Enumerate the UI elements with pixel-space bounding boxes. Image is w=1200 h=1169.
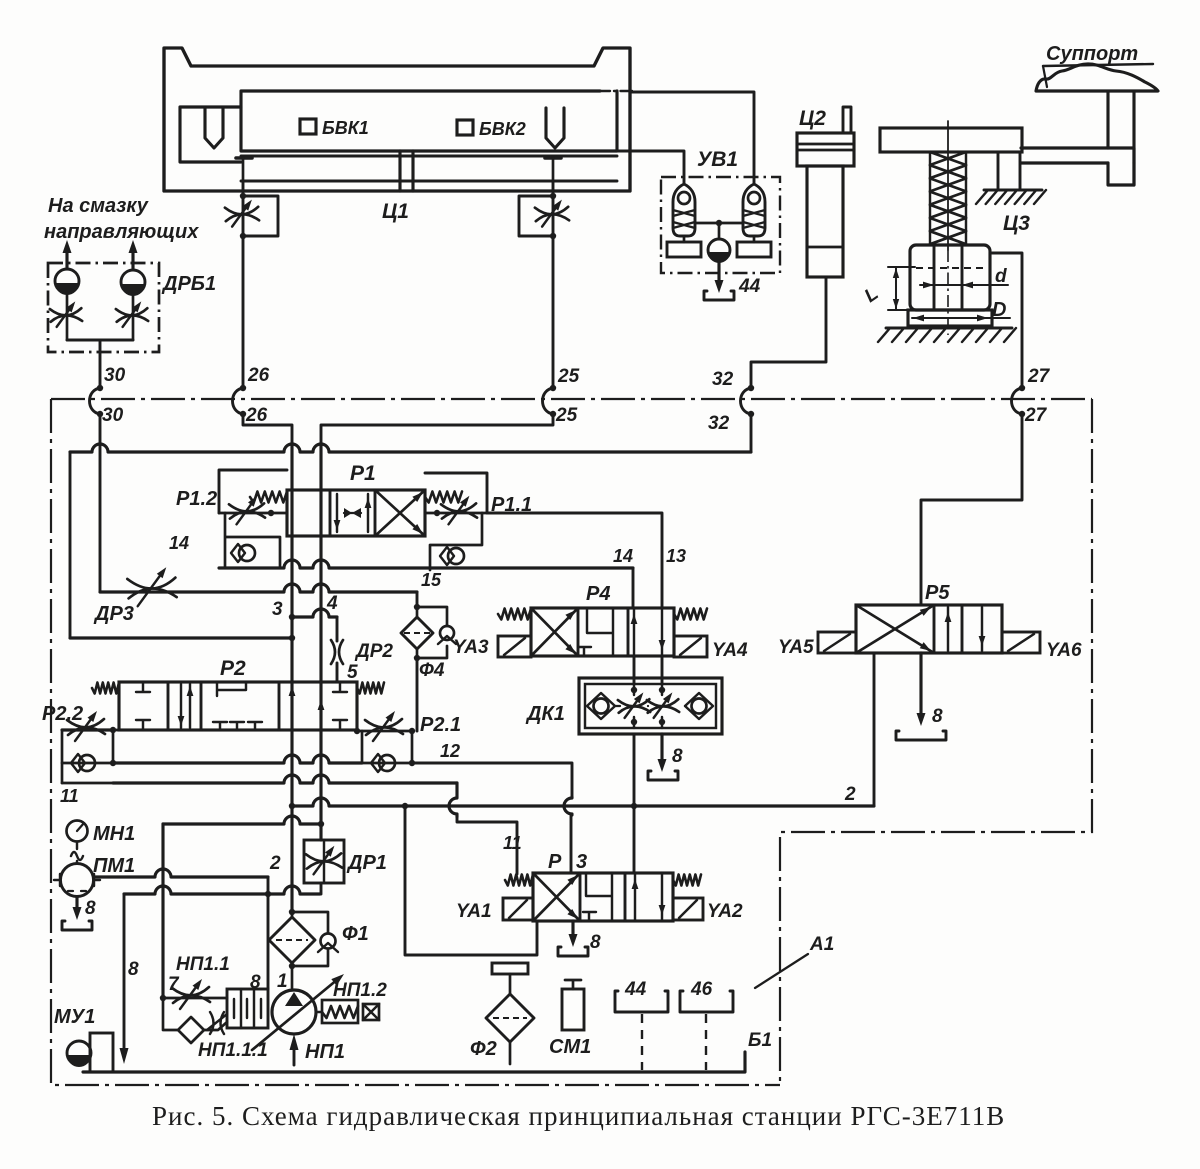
bypass box right port xyxy=(519,196,553,236)
svg-text:11: 11 xyxy=(60,786,79,806)
svg-text:НП1: НП1 xyxy=(305,1041,345,1063)
throttle under left lubricator xyxy=(66,293,69,340)
svg-text:32: 32 xyxy=(712,369,734,390)
P2.2 check valve xyxy=(62,762,113,765)
wire 27 to P5 xyxy=(921,414,1022,605)
P1 right spring xyxy=(425,492,462,503)
tank symbol 44 xyxy=(704,291,734,300)
throttle on left port line xyxy=(242,196,245,236)
P5 left port to line 2 xyxy=(873,653,876,806)
throttle ДР3 xyxy=(129,588,177,598)
P2.1 check valve xyxy=(362,762,412,765)
port terminal tick left xyxy=(236,156,252,160)
wire 25 down to frame node xyxy=(552,236,555,388)
support blob shape xyxy=(1036,64,1158,91)
svg-text:Суппорт: Суппорт xyxy=(1046,43,1138,65)
svg-text:Р2: Р2 xyxy=(220,657,246,680)
svg-text:НП1.1.1: НП1.1.1 xyxy=(198,1040,268,1061)
support post xyxy=(1108,92,1134,163)
svg-text:ПМ1: ПМ1 xyxy=(93,855,135,877)
probe plunger left xyxy=(205,108,223,148)
solenoid YA4 xyxy=(674,636,707,657)
P2 section2 arrows xyxy=(181,684,190,728)
dimension L xyxy=(888,267,915,310)
svg-text:А1: А1 xyxy=(809,934,834,955)
sensor square BVK1 xyxy=(300,119,316,134)
svg-text:YA4: YA4 xyxy=(712,640,748,661)
line 4 between P2 and ДР1 xyxy=(319,682,322,840)
Ц2 rod wire to node 32 xyxy=(751,277,826,388)
dimension D xyxy=(912,317,1010,319)
svg-text:Б1: Б1 xyxy=(748,1030,772,1051)
svg-text:44: 44 xyxy=(624,979,647,1000)
cylinder block of Ц3 xyxy=(910,245,990,310)
solenoid YA2 xyxy=(673,898,703,920)
bed inner pocket wall xyxy=(180,107,241,162)
wire from left port down xyxy=(242,181,245,196)
wire 25 to line 4 xyxy=(321,414,553,443)
dash-dot box УВ1 xyxy=(661,177,780,273)
throttle ДР2 diamond xyxy=(416,607,419,618)
svg-text:11: 11 xyxy=(503,833,522,853)
P4 right spring xyxy=(674,609,707,620)
frame of station A1 (dash-dot) xyxy=(51,399,1092,1085)
svg-text:8: 8 xyxy=(672,746,683,767)
wire B from bed to УВ1 left element xyxy=(617,151,684,184)
svg-text:8: 8 xyxy=(590,932,601,953)
subvalve P2.2 throttle xyxy=(113,729,119,732)
spring of Ц3 xyxy=(930,152,966,245)
node 32 frame crossing xyxy=(748,385,754,391)
pump variable arrow xyxy=(252,979,338,1050)
ДК1 left check valve xyxy=(594,699,609,714)
support beam xyxy=(1021,148,1134,185)
bus under P1 xyxy=(219,560,633,568)
svg-text:YA2: YA2 xyxy=(707,901,743,922)
svg-text:32: 32 xyxy=(708,413,730,434)
left riser of bus 32 xyxy=(69,452,72,638)
УВ1 right element box xyxy=(753,236,756,242)
joining wire inside ДРБ1 xyxy=(67,340,133,388)
svg-text:26: 26 xyxy=(247,365,270,386)
solenoid YA6 xyxy=(1002,632,1040,653)
P3 right spring xyxy=(673,875,701,886)
svg-text:3: 3 xyxy=(576,851,587,873)
line 3 vertical middle xyxy=(290,490,293,682)
line 3 label 1 region - filter Ф1 xyxy=(289,909,295,915)
node 25 frame crossing xyxy=(550,385,556,391)
servo throttle НП1.1 xyxy=(163,997,227,1000)
line 2 bus horizontal xyxy=(292,798,874,806)
pump servo block xyxy=(227,989,268,1028)
svg-text:МН1: МН1 xyxy=(93,823,135,845)
svg-text:L: L xyxy=(861,283,883,307)
drain arrow to tank 44 xyxy=(717,261,720,284)
dash-dot box ДРБ1 xyxy=(48,263,159,352)
arrow up to lubrication left xyxy=(65,249,68,269)
svg-text:46: 46 xyxy=(690,979,713,1000)
wire from Ф4 down to P2.1 xyxy=(416,658,419,731)
P5 middle arrow xyxy=(947,607,949,651)
svg-text:направляющих: направляющих xyxy=(44,221,199,243)
svg-text:26: 26 xyxy=(245,405,268,426)
arrow up to lubrication right xyxy=(131,249,134,269)
subvalve P1.2 box xyxy=(219,470,287,513)
wire from right port down xyxy=(552,181,555,196)
P3 right arrows xyxy=(635,873,662,921)
hatched ground upper xyxy=(984,189,1042,192)
svg-text:Ц1: Ц1 xyxy=(382,200,409,223)
svg-text:ДР3: ДР3 xyxy=(93,603,134,625)
throttle on right port line xyxy=(552,196,555,236)
bus 32 horizontal xyxy=(70,444,751,452)
lubricator right (circle half filled) xyxy=(121,270,145,294)
svg-text:44: 44 xyxy=(738,276,761,297)
lubricator left (circle half filled) xyxy=(55,269,79,293)
svg-text:30: 30 xyxy=(102,405,124,426)
subvalve P2.1 xyxy=(356,730,359,731)
pump suction arrow xyxy=(293,1047,296,1065)
bypass box left port xyxy=(243,196,278,236)
pump limiter box xyxy=(363,1004,379,1020)
block ДК1 outer xyxy=(579,678,722,734)
wire 26 to line 3 xyxy=(243,414,292,443)
wire to pump servo xyxy=(267,894,270,989)
port terminal tick right xyxy=(545,156,561,160)
svg-text:1: 1 xyxy=(277,971,288,992)
dash-dot wall segment at bed right xyxy=(598,90,632,92)
svg-text:ДР2: ДР2 xyxy=(354,641,393,662)
svg-text:2: 2 xyxy=(269,853,281,874)
P2.2 check valve box xyxy=(62,730,113,783)
P3 left spring xyxy=(505,875,533,886)
line 12 bus xyxy=(113,755,362,763)
svg-text:Р5: Р5 xyxy=(925,582,950,604)
cylinder chamber lines xyxy=(241,155,617,158)
svg-text:НП1.2: НП1.2 xyxy=(333,980,387,1001)
P3 drain box xyxy=(405,806,537,955)
svg-text:Р4: Р4 xyxy=(586,583,610,605)
svg-text:СМ1: СМ1 xyxy=(549,1036,591,1058)
P5 left X xyxy=(856,605,934,653)
P1.1 check valve xyxy=(448,548,464,564)
svg-text:YA5: YA5 xyxy=(778,637,814,658)
svg-text:27: 27 xyxy=(1024,405,1048,426)
svg-text:БВК2: БВК2 xyxy=(479,119,526,139)
dimension d xyxy=(920,284,1008,286)
УВ1 right pilot element xyxy=(743,184,765,236)
line 14 riser to P4 xyxy=(632,568,635,608)
P4 middle symbols xyxy=(578,608,613,656)
valve P4 body xyxy=(531,608,674,656)
НП1.1.1 check valve path xyxy=(163,998,177,1030)
P2 section3 bridge xyxy=(217,682,246,696)
svg-text:d: d xyxy=(995,266,1007,287)
svg-text:2: 2 xyxy=(844,784,856,805)
drain wire with arrow xyxy=(123,894,126,1048)
УВ1 left pilot element xyxy=(673,184,695,236)
line 11 lower bus xyxy=(62,782,113,785)
wire 26 down to frame node xyxy=(242,236,245,388)
node 30 frame crossing xyxy=(97,385,103,391)
bracket to guide ground xyxy=(998,152,1020,190)
valve P3 body xyxy=(533,873,673,921)
P3 middle symbols xyxy=(583,873,612,921)
svg-text:Ф1: Ф1 xyxy=(342,923,369,945)
tank port 46 xyxy=(680,991,733,1012)
throttle ДР3 line xyxy=(100,584,417,592)
line 3 lower vertical xyxy=(290,682,293,912)
Ц2 handle xyxy=(843,107,851,133)
line 4 vertical middle xyxy=(319,490,322,682)
svg-text:На смазку: На смазку xyxy=(48,195,149,217)
P1.1 check valve box xyxy=(430,513,482,570)
P5 right arrow xyxy=(981,607,983,651)
svg-text:8: 8 xyxy=(85,898,96,919)
tank port 44 xyxy=(615,991,668,1012)
P2.1 check valve box xyxy=(362,731,412,763)
coupler symbol xyxy=(331,640,343,664)
hatched ground lower xyxy=(886,327,1012,330)
svg-text:Р: Р xyxy=(548,851,562,873)
throttle under right lubricator xyxy=(132,294,135,340)
line 11 to P3 xyxy=(449,783,457,817)
Ц2 body xyxy=(807,166,843,277)
svg-text:YA1: YA1 xyxy=(456,901,492,922)
svg-text:15: 15 xyxy=(421,570,442,590)
P3 left X xyxy=(533,873,580,921)
P2 right spring xyxy=(357,683,384,694)
Ф1 bypass check valve xyxy=(292,912,328,933)
svg-text:3: 3 xyxy=(272,599,283,620)
wire A from bed to УВ1 right element xyxy=(630,92,754,184)
svg-text:Р1: Р1 xyxy=(350,462,376,485)
wire 13 from ДК1 to line 2 xyxy=(633,734,636,806)
solenoid YA3 xyxy=(498,636,531,657)
svg-text:Р1.2: Р1.2 xyxy=(176,488,217,510)
ДК1 throttles xyxy=(619,706,650,712)
line 5 with coupler to P2 xyxy=(292,609,337,617)
junction wire to ДР1 xyxy=(124,886,320,894)
piston of Ц1 xyxy=(400,151,413,191)
УВ1 internal wire and half-dark circle xyxy=(695,222,743,225)
УВ1 left element box xyxy=(683,236,686,242)
ДК1 right check valve xyxy=(692,699,707,714)
P4 left spring xyxy=(498,609,531,620)
flange of Ц3 xyxy=(908,310,992,326)
level gauge СМ1 xyxy=(565,980,581,989)
svg-text:8: 8 xyxy=(128,959,139,980)
pump spring НП1.2 xyxy=(316,1011,322,1013)
line to pump servo from line 4 xyxy=(163,816,321,824)
probe plunger right xyxy=(546,108,564,148)
valve P5 body xyxy=(856,605,1002,653)
sensor square BVK2 xyxy=(457,120,473,135)
wire 32 vertical xyxy=(750,414,753,452)
P1.2 check valve xyxy=(239,545,255,561)
line to node 3 horizontal xyxy=(70,636,292,639)
svg-text:14: 14 xyxy=(613,546,633,566)
P4 right section arrows xyxy=(634,608,662,656)
line 13 from P1.1 to P4 xyxy=(487,513,662,608)
svg-text:5: 5 xyxy=(347,662,358,683)
svg-text:Ц2: Ц2 xyxy=(799,107,826,130)
svg-text:Р2.2: Р2.2 xyxy=(42,703,83,725)
P1 right section X xyxy=(375,490,425,536)
solenoid YA5 xyxy=(818,632,856,653)
svg-text:13: 13 xyxy=(666,546,686,566)
svg-text:12: 12 xyxy=(440,741,460,761)
ДР1 bottom jog xyxy=(320,883,323,894)
valve P2 body xyxy=(119,682,357,730)
P2 section1 symbols xyxy=(136,682,150,730)
pipe 27 from Ц3 xyxy=(992,253,1022,388)
ПМ1 drain arrow and tank xyxy=(75,897,78,911)
svg-text:Ф2: Ф2 xyxy=(470,1038,497,1060)
P3 drain arrow and tank xyxy=(571,921,574,938)
wire from servo line down xyxy=(161,824,164,998)
drain of ДК1 to tank xyxy=(660,734,663,763)
P1.2 check valve box xyxy=(225,513,280,568)
node 27 frame crossing xyxy=(1019,385,1025,391)
lines 13 14 between P4 and ДК1 xyxy=(633,656,636,683)
Ц2 top cap xyxy=(797,133,854,166)
BVK sensor rectangle xyxy=(241,91,617,151)
top plate of Ц3 xyxy=(880,128,1022,152)
node 26 frame crossing xyxy=(240,385,246,391)
P2 section4 symbols xyxy=(289,686,296,696)
subvalve P1.1 box xyxy=(425,473,487,513)
ПМ1 wire to junction xyxy=(94,869,268,877)
damper between МН1 and ПМ1 xyxy=(71,842,83,863)
tank Б1 bottom line xyxy=(83,1052,745,1072)
P1 left spring xyxy=(250,492,287,503)
svg-text:25: 25 xyxy=(555,405,578,426)
throttle ДР1 box xyxy=(304,840,344,883)
svg-text:Рис. 5. Схема гидравлическая п: Рис. 5. Схема гидравлическая принципиаль… xyxy=(152,1101,1005,1131)
svg-text:14: 14 xyxy=(169,533,189,553)
wire 13 to P3 top xyxy=(633,806,636,873)
wire 30 below frame xyxy=(99,414,102,592)
P4 left X xyxy=(531,608,578,656)
P5 drain arrow and tank xyxy=(919,653,922,717)
P2 left spring xyxy=(92,683,119,694)
check valve Ф4 bypass xyxy=(417,607,447,658)
svg-text:ДРБ1: ДРБ1 xyxy=(161,273,216,295)
svg-text:YA3: YA3 xyxy=(453,637,489,658)
svg-text:30: 30 xyxy=(104,365,126,386)
svg-text:НП1.1: НП1.1 xyxy=(176,954,230,975)
wire 15 down to ДР2 xyxy=(416,592,419,607)
line 12 hop over line 2 and to P3 xyxy=(564,797,572,815)
machine bed outline (cylinder Ц1 body) xyxy=(164,48,630,191)
P1.1 throttle xyxy=(425,512,487,515)
solenoid YA1 xyxy=(503,898,533,920)
svg-text:D: D xyxy=(992,299,1006,321)
line 4 vertical upper xyxy=(319,443,322,490)
svg-text:МУ1: МУ1 xyxy=(54,1006,95,1028)
pump НП1 circle xyxy=(272,990,316,1034)
svg-text:УВ1: УВ1 xyxy=(697,148,738,171)
valve P1 body xyxy=(287,490,425,536)
svg-text:27: 27 xyxy=(1027,366,1051,387)
svg-text:БВК1: БВК1 xyxy=(322,118,369,138)
line 3 vertical upper xyxy=(290,443,293,490)
svg-text:Р2.1: Р2.1 xyxy=(420,714,461,736)
svg-text:ДР1: ДР1 xyxy=(346,852,387,874)
svg-text:Ц3: Ц3 xyxy=(1003,212,1030,235)
svg-text:8: 8 xyxy=(932,706,943,727)
center line through Ц3 xyxy=(947,121,949,250)
svg-text:ДК1: ДК1 xyxy=(525,703,565,725)
svg-text:YA6: YA6 xyxy=(1046,640,1082,661)
support foot xyxy=(1108,163,1134,185)
pressure gauge МН1 xyxy=(67,821,88,842)
svg-text:25: 25 xyxy=(557,366,580,387)
P1 middle section symbols xyxy=(337,494,368,532)
air filter Ф2 xyxy=(492,963,528,974)
pressure switch ПМ1 xyxy=(61,864,94,897)
P1.2 throttle xyxy=(219,512,287,515)
svg-text:Ф4: Ф4 xyxy=(419,660,445,681)
